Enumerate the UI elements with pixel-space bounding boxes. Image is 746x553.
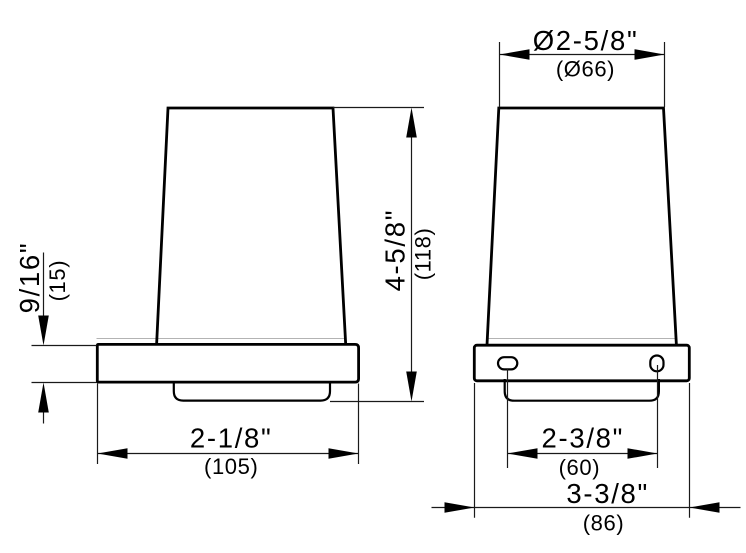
dimension 3-3/8" (86): dimension line and outside arrows [432,502,741,513]
svg-text:4-5/8": 4-5/8" [380,209,411,292]
right view: wall plate [474,345,689,381]
dimension 3-3/8" (86): extension lines [475,383,690,518]
right view: holder insert below plate [505,379,659,401]
svg-text:(118): (118) [410,228,435,281]
dimension 2-1/8" (105): extension lines [98,384,359,465]
left view: wall plate [97,344,358,382]
left view: glass seam faint line [97,338,347,340]
left view: cup body outline [157,108,346,344]
dimension 2-3/8" (60): extension lines [508,365,658,468]
svg-text:9/16": 9/16" [14,242,45,314]
dimension (118) label [410,228,435,281]
right view: left mounting slot [498,357,517,369]
dimension (Ø66) label [556,57,615,82]
svg-text:2-3/8": 2-3/8" [541,423,624,454]
svg-text:Ø2-5/8": Ø2-5/8" [533,25,639,56]
dimension Ø2-5/8" (Ø66): extension lines [500,42,665,107]
svg-text:2-1/8": 2-1/8" [190,422,273,453]
svg-text:(86): (86) [583,510,625,535]
dimension 9/16" label [14,242,45,314]
right view: right mounting hole [650,356,663,372]
dimension Ø2-5/8" label [533,25,639,56]
svg-text:(105): (105) [204,454,258,479]
dimension 4-5/8" label [380,209,411,292]
dimension 2-1/8" label [190,422,273,453]
dimension (15) label [45,260,70,302]
right view: glass seam faint line [488,338,676,340]
dimension Ø2-5/8" (Ø66): dimension line and arrows [500,49,665,60]
dimension 2-3/8" label [541,423,624,454]
dimension (105) label [204,454,258,479]
svg-text:(60): (60) [559,455,601,480]
dimension (86) label [583,510,625,535]
dimension 2-1/8" (105): dimension line and arrows [98,448,359,459]
dimension (60) label [559,455,601,480]
dimension 4-5/8" (118): dimension line and arrows [406,108,417,402]
right view: cup body outline [487,108,676,345]
svg-text:(Ø66): (Ø66) [556,57,615,82]
dimension 9/16" (15): extension lines [32,346,97,383]
dimension 4-5/8" (118): extension lines [330,108,424,402]
svg-text:3-3/8": 3-3/8" [566,478,649,509]
dimension 3-3/8" label [566,478,649,509]
svg-text:(15): (15) [45,260,70,302]
dimension 9/16" (15): dimension lines and arrows [38,253,49,424]
left view: holder insert below plate [174,381,330,401]
dimension 2-3/8" (60): dimension line and arrows [508,448,658,459]
